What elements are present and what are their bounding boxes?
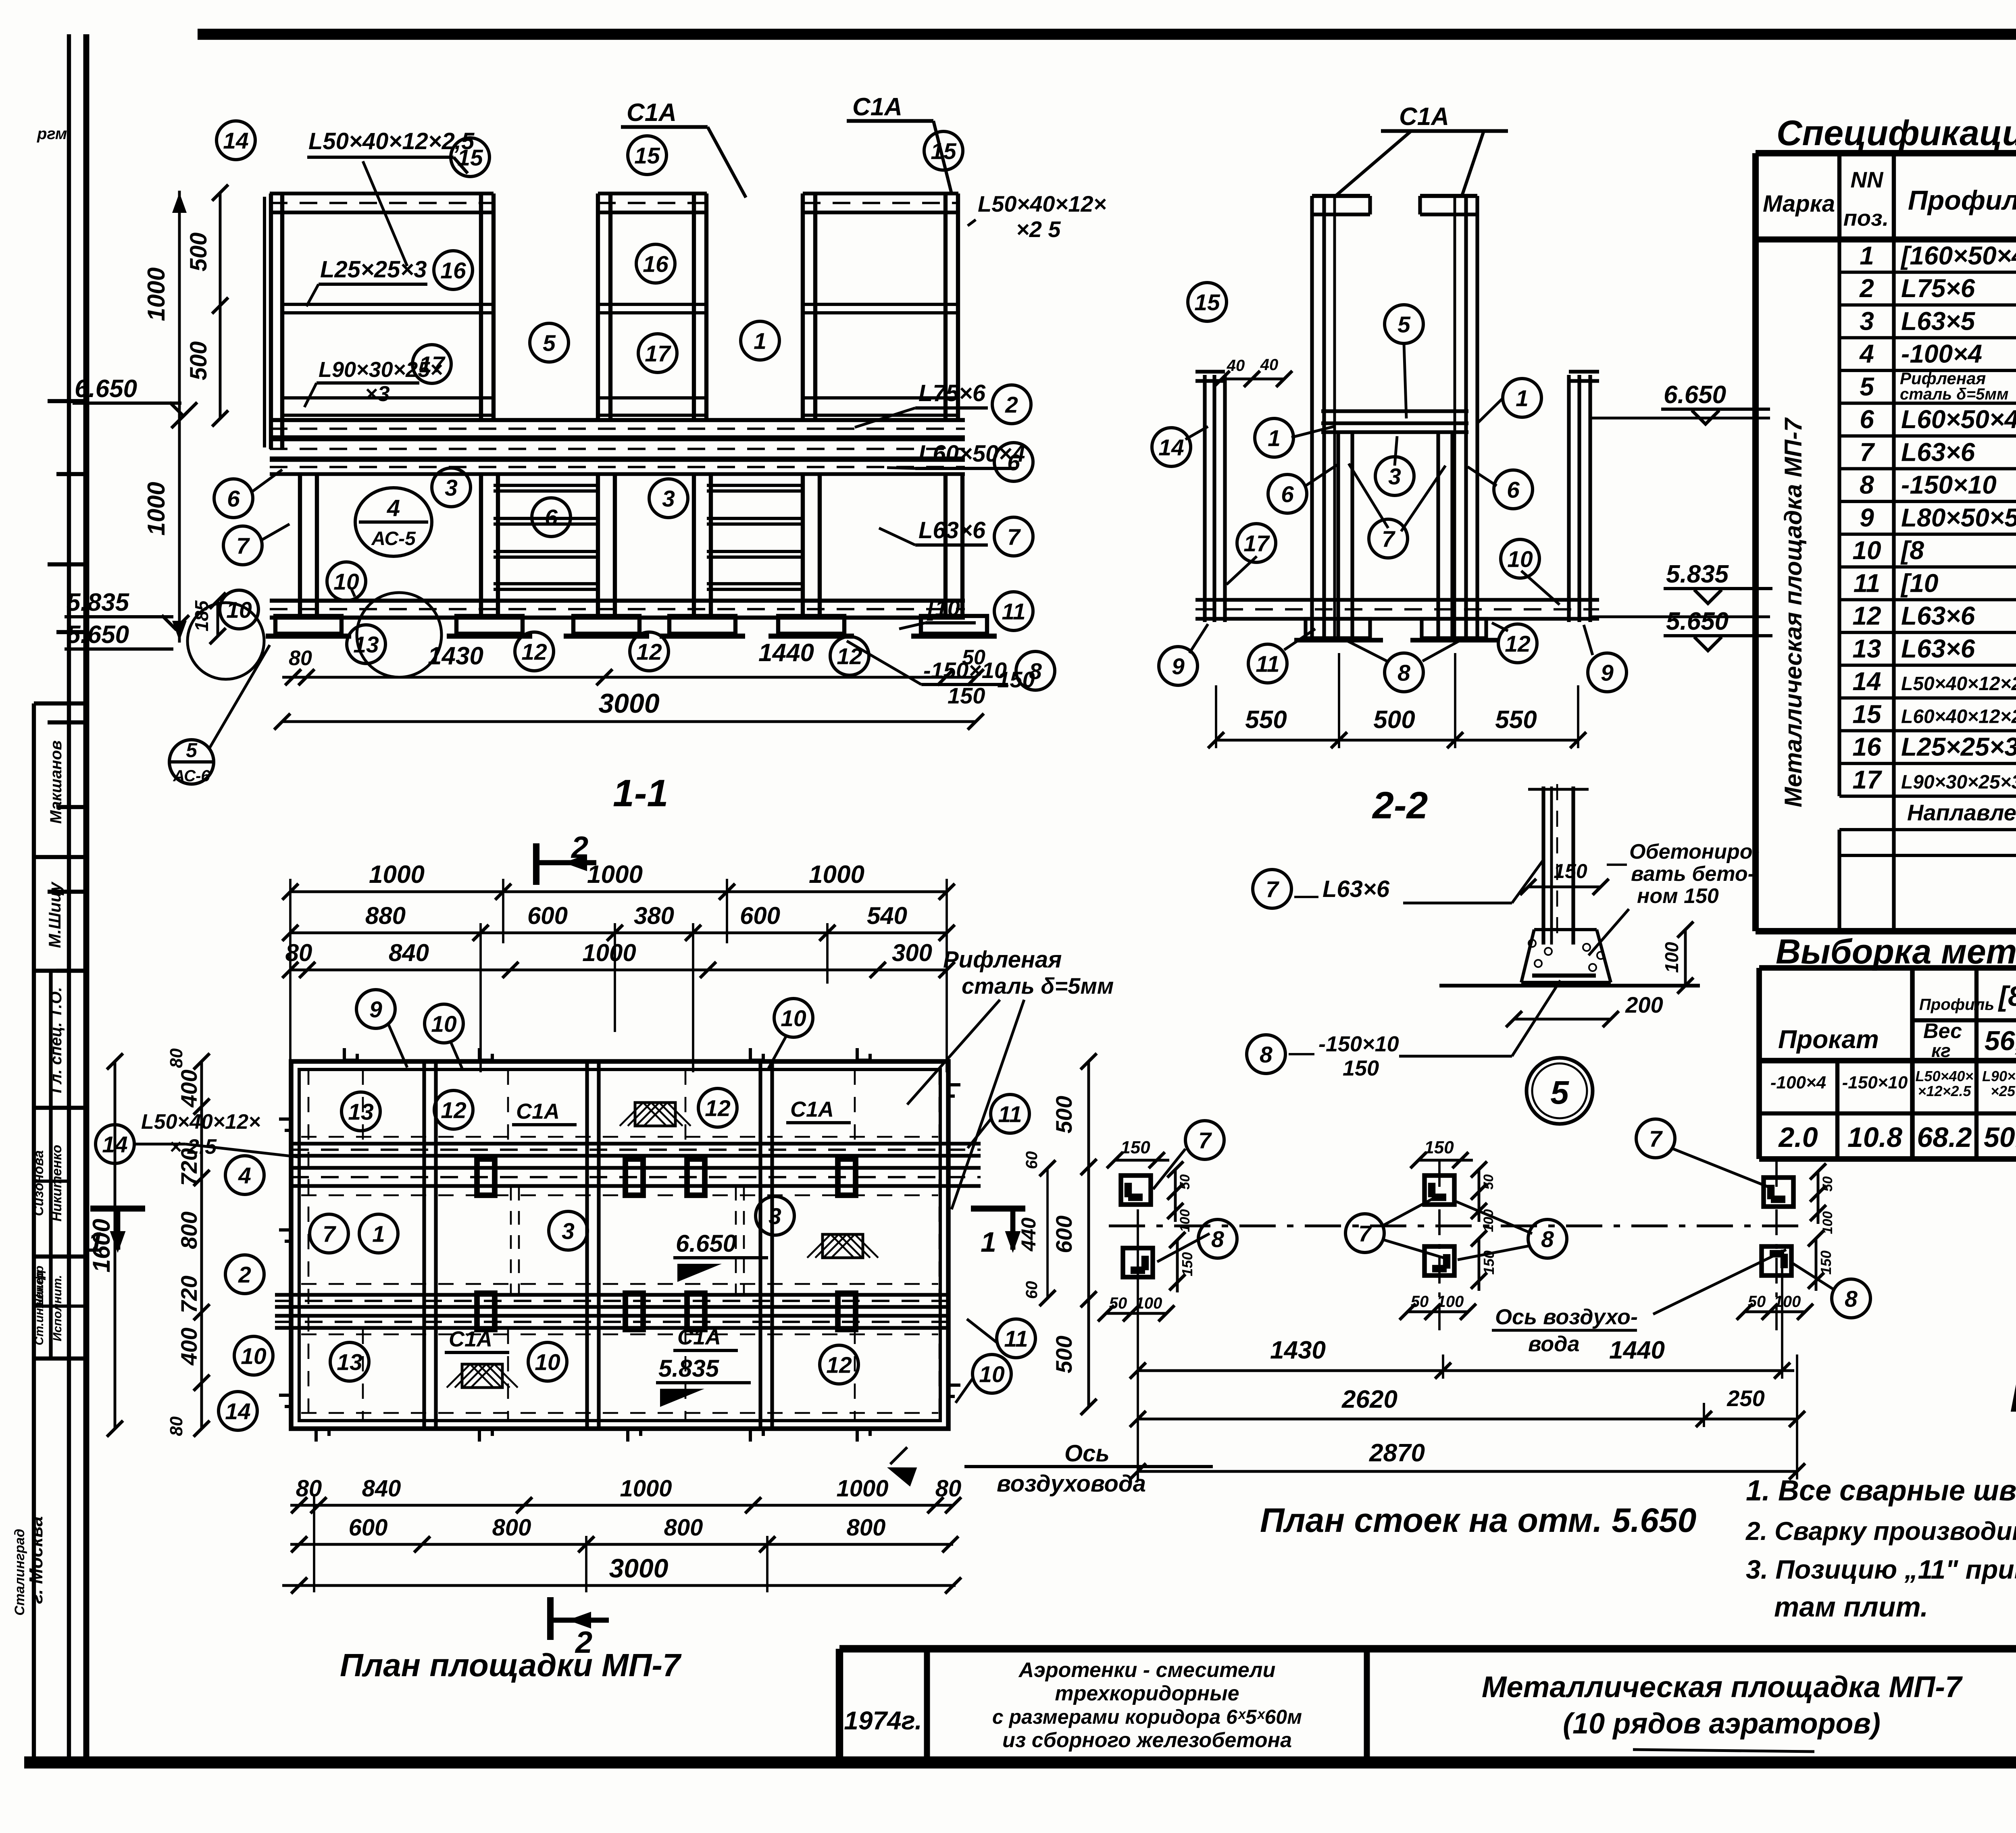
svg-text:50: 50 — [1820, 1176, 1835, 1192]
svg-text:Сталинград: Сталинград — [12, 1529, 27, 1615]
svg-text:50: 50 — [1481, 1174, 1496, 1190]
svg-text:С1А: С1А — [627, 99, 677, 127]
svg-text:600: 600 — [740, 902, 780, 929]
svg-text:L60×50×4: L60×50×4 — [918, 441, 1025, 467]
svg-text:150: 150 — [1179, 1252, 1195, 1276]
svg-text:Сизонова: Сизонова — [31, 1150, 46, 1216]
svg-text:кг: кг — [1931, 1040, 1951, 1061]
svg-text:7: 7 — [1382, 526, 1395, 552]
svg-text:[10: [10 — [1900, 568, 1939, 597]
svg-text:L63×6: L63×6 — [1901, 601, 1975, 630]
svg-text:2: 2 — [1859, 274, 1874, 303]
svg-text:6.650: 6.650 — [1664, 381, 1726, 409]
svg-text:1974г.: 1974г. — [844, 1706, 922, 1735]
svg-text:500: 500 — [1373, 706, 1415, 734]
svg-text:1000: 1000 — [143, 482, 170, 535]
svg-text:L63×6: L63×6 — [1901, 634, 1975, 663]
svg-text:Рифленая: Рифленая — [943, 947, 1062, 973]
svg-text:Профиль: Профиль — [1919, 996, 1994, 1013]
svg-text:150: 150 — [1424, 1138, 1454, 1157]
svg-text:L63×6: L63×6 — [1322, 876, 1390, 902]
svg-text:80: 80 — [167, 1048, 186, 1068]
svg-text:L60×50×4: L60×50×4 — [1901, 405, 2016, 434]
svg-text:Ось воздухо-: Ось воздухо- — [1495, 1305, 1638, 1329]
svg-text:L25×25×3: L25×25×3 — [1901, 732, 2016, 761]
svg-text:L50×40×12×: L50×40×12× — [978, 191, 1106, 216]
svg-text:1000: 1000 — [836, 1475, 888, 1502]
svg-text:2. Сварку производить электрод: 2. Сварку производить электродами Э-42 Г… — [1745, 1517, 2016, 1546]
svg-text:5.835: 5.835 — [67, 589, 130, 616]
svg-text:L50×40×12×: L50×40×12× — [141, 1110, 260, 1134]
svg-text:550: 550 — [1245, 706, 1287, 734]
svg-text:12: 12 — [1505, 631, 1531, 657]
svg-text:12: 12 — [705, 1096, 731, 1121]
svg-text:12: 12 — [1852, 601, 1881, 630]
svg-text:Примечания: Примечания — [2010, 1373, 2016, 1421]
svg-text:3: 3 — [662, 486, 675, 512]
svg-text:С1А: С1А — [516, 1099, 560, 1124]
svg-text:×3: ×3 — [365, 382, 390, 406]
svg-text:11: 11 — [1004, 1326, 1028, 1352]
svg-text:380: 380 — [634, 902, 674, 929]
svg-text:1000: 1000 — [582, 939, 636, 966]
svg-text:6.650: 6.650 — [676, 1230, 736, 1257]
svg-text:100: 100 — [1437, 1293, 1464, 1311]
svg-text:5.835: 5.835 — [658, 1355, 720, 1382]
svg-text:5: 5 — [1860, 372, 1874, 401]
svg-text:Вес: Вес — [1923, 1019, 1962, 1043]
svg-text:5: 5 — [1550, 1074, 1569, 1111]
svg-text:План стоек на отм. 5.650: План стоек на отм. 5.650 — [1260, 1501, 1696, 1539]
svg-text:7: 7 — [1266, 877, 1279, 903]
svg-text:2870: 2870 — [1369, 1439, 1425, 1467]
svg-text:17: 17 — [1852, 765, 1883, 794]
svg-text:-100×4: -100×4 — [1770, 1073, 1826, 1092]
svg-text:50: 50 — [1177, 1174, 1193, 1190]
svg-text:13: 13 — [353, 632, 379, 658]
svg-text:трехкоридорные: трехкоридорные — [1055, 1682, 1239, 1705]
svg-text:14: 14 — [1852, 667, 1881, 696]
svg-text:50.3: 50.3 — [1984, 1121, 2016, 1153]
svg-text:L60×40×12×2.5: L60×40×12×2.5 — [1901, 706, 2016, 727]
svg-text:План площадки МП-7: План площадки МП-7 — [340, 1647, 682, 1683]
svg-text:L50×40×: L50×40× — [1915, 1068, 1973, 1084]
svg-text:ргм: ргм — [37, 125, 67, 143]
svg-text:7: 7 — [323, 1221, 336, 1247]
svg-text:L50×40×12×2,5: L50×40×12×2,5 — [308, 128, 475, 154]
svg-text:13: 13 — [337, 1350, 362, 1375]
svg-text:вода: вода — [1528, 1332, 1580, 1356]
svg-text:300: 300 — [892, 939, 932, 966]
svg-text:10: 10 — [241, 1344, 267, 1369]
svg-text:Профиль: Профиль — [1908, 185, 2016, 216]
svg-text:500: 500 — [185, 341, 212, 381]
svg-text:3. Позицию „11" приваривать к: 3. Позицию „11" приваривать к закладным … — [1746, 1554, 2016, 1584]
svg-text:1: 1 — [981, 1226, 996, 1258]
svg-text:100: 100 — [1135, 1294, 1162, 1312]
svg-text:840: 840 — [389, 939, 429, 966]
svg-text:6: 6 — [1860, 405, 1874, 434]
svg-text:540: 540 — [867, 902, 907, 929]
svg-text:550: 550 — [1495, 706, 1537, 734]
svg-text:Рифленая: Рифленая — [1900, 369, 1986, 388]
svg-text:воздуховода: воздуховода — [997, 1471, 1146, 1497]
svg-text:1: 1 — [754, 329, 766, 354]
svg-text:150: 150 — [1818, 1250, 1834, 1275]
svg-text:Спецификация металла на 1 марк: Спецификация металла на 1 марку — [1776, 113, 2016, 153]
svg-text:-150×10: -150×10 — [1318, 1032, 1399, 1056]
svg-text:600: 600 — [1051, 1215, 1077, 1253]
svg-text:Ши.фр: Ши.фр — [33, 1266, 46, 1307]
svg-text:9: 9 — [1860, 503, 1874, 532]
svg-text:L63×6: L63×6 — [918, 517, 986, 543]
svg-text:5: 5 — [186, 739, 198, 761]
svg-text:7: 7 — [1649, 1126, 1663, 1152]
svg-text:11: 11 — [1256, 651, 1279, 677]
svg-text:150: 150 — [1343, 1056, 1379, 1080]
svg-text:8: 8 — [1029, 659, 1042, 685]
svg-text:1-1: 1-1 — [613, 772, 668, 815]
svg-text:56,0: 56,0 — [1985, 1026, 2016, 1056]
svg-text:С1А: С1А — [449, 1327, 492, 1351]
svg-text:80: 80 — [289, 647, 312, 670]
svg-text:68.2: 68.2 — [1917, 1121, 1972, 1153]
svg-text:-150×10: -150×10 — [1901, 470, 1997, 499]
svg-text:7: 7 — [236, 533, 250, 559]
svg-text:Обетониро-: Обетониро- — [1629, 840, 1760, 863]
svg-text:Гл. спец. Т.О.: Гл. спец. Т.О. — [47, 987, 65, 1093]
svg-text:× 2.5: × 2.5 — [169, 1135, 217, 1159]
svg-text:16: 16 — [1852, 732, 1881, 761]
svg-text:185: 185 — [191, 600, 212, 631]
svg-text:2620: 2620 — [1341, 1386, 1397, 1413]
svg-text:50: 50 — [1411, 1293, 1429, 1311]
svg-text:720: 720 — [176, 1275, 202, 1313]
svg-text:600: 600 — [349, 1515, 388, 1541]
svg-text:L63×5: L63×5 — [1901, 306, 1976, 335]
svg-text:1430: 1430 — [1270, 1336, 1326, 1364]
svg-text:840: 840 — [362, 1475, 401, 1502]
svg-text:×12×2.5: ×12×2.5 — [1918, 1083, 1971, 1099]
svg-text:1: 1 — [1516, 386, 1529, 412]
svg-text:5.650: 5.650 — [67, 621, 129, 649]
svg-text:2: 2 — [238, 1262, 251, 1288]
svg-text:Исполнит.: Исполнит. — [51, 1275, 64, 1342]
svg-text:600: 600 — [527, 902, 568, 929]
svg-text:500: 500 — [1051, 1096, 1077, 1133]
svg-text:500: 500 — [1051, 1336, 1077, 1373]
svg-text:3000: 3000 — [598, 688, 659, 719]
svg-text:5.650: 5.650 — [1666, 608, 1729, 635]
svg-text:10: 10 — [1507, 547, 1533, 572]
svg-text:100: 100 — [1774, 1293, 1801, 1311]
svg-text:-100×4: -100×4 — [1901, 339, 1982, 368]
svg-text:8: 8 — [1845, 1286, 1858, 1312]
svg-text:1. Все сварные швы h= 4мм.: 1. Все сварные швы h= 4мм. — [1746, 1475, 2016, 1507]
svg-text:10.8: 10.8 — [1847, 1121, 1902, 1153]
svg-text:8: 8 — [1211, 1227, 1224, 1253]
svg-text:9: 9 — [369, 997, 382, 1023]
svg-text:800: 800 — [176, 1211, 202, 1249]
svg-text:80: 80 — [935, 1475, 962, 1502]
svg-text:7: 7 — [1860, 437, 1875, 466]
svg-text:13: 13 — [1852, 634, 1881, 663]
svg-text:L50×40×12×2.5: L50×40×12×2.5 — [1901, 673, 2016, 695]
svg-text:NN: NN — [1851, 167, 1884, 192]
svg-text:12: 12 — [636, 639, 662, 665]
svg-text:сталь δ=5мм: сталь δ=5мм — [962, 973, 1114, 999]
svg-text:14: 14 — [223, 128, 248, 154]
svg-text:[160×50×4: [160×50×4 — [1900, 241, 2016, 270]
svg-text:там плит.: там плит. — [1774, 1591, 1928, 1623]
svg-text:12: 12 — [826, 1352, 852, 1378]
svg-text:[10: [10 — [927, 595, 960, 621]
svg-text:15: 15 — [1194, 290, 1220, 316]
svg-text:16: 16 — [643, 252, 669, 277]
svg-text:2-2: 2-2 — [1372, 784, 1428, 827]
svg-text:ном 150: ном 150 — [1637, 884, 1719, 908]
svg-text:8: 8 — [1260, 1042, 1272, 1068]
svg-text:С1А: С1А — [790, 1097, 834, 1121]
svg-text:11: 11 — [998, 1102, 1022, 1128]
svg-text:L90×50×: L90×50× — [1982, 1068, 2016, 1084]
svg-text:6: 6 — [545, 505, 558, 531]
svg-text:11: 11 — [1002, 599, 1025, 625]
svg-text:50: 50 — [1109, 1294, 1127, 1312]
svg-text:10: 10 — [979, 1362, 1005, 1388]
svg-text:[8: [8 — [1998, 980, 2016, 1012]
svg-text:7: 7 — [1007, 524, 1021, 550]
svg-text:17: 17 — [1243, 531, 1270, 557]
svg-text:1: 1 — [372, 1221, 385, 1247]
svg-text:10: 10 — [431, 1011, 457, 1037]
svg-text:8: 8 — [1397, 660, 1410, 686]
svg-text:L25×25×3: L25×25×3 — [320, 256, 427, 283]
svg-text:10: 10 — [1852, 536, 1881, 565]
svg-text:1: 1 — [88, 1226, 104, 1258]
svg-text:10: 10 — [535, 1350, 560, 1375]
svg-text:5.835: 5.835 — [1666, 560, 1729, 588]
svg-text:Металлическая площадка МП-7: Металлическая площадка МП-7 — [1482, 1670, 1963, 1704]
svg-text:14: 14 — [102, 1132, 127, 1158]
svg-text:4: 4 — [1859, 339, 1874, 368]
svg-text:15: 15 — [634, 143, 660, 169]
svg-text:150: 150 — [1120, 1138, 1150, 1157]
svg-text:L63×6: L63×6 — [1901, 437, 1975, 466]
svg-text:С1А: С1А — [1399, 103, 1449, 131]
svg-text:L75×6: L75×6 — [918, 380, 986, 406]
svg-text:2: 2 — [571, 830, 588, 865]
svg-text:500: 500 — [185, 233, 212, 272]
svg-text:Никитенко: Никитенко — [49, 1145, 65, 1222]
svg-text:40: 40 — [1260, 356, 1279, 374]
svg-text:50: 50 — [1748, 1293, 1766, 1311]
svg-text:2: 2 — [1005, 392, 1018, 418]
svg-text:3: 3 — [445, 475, 458, 501]
svg-text:4: 4 — [238, 1163, 251, 1189]
svg-text:200: 200 — [1625, 992, 1663, 1017]
svg-text:10: 10 — [226, 597, 252, 623]
svg-text:АС-5: АС-5 — [371, 528, 416, 549]
svg-text:-150×10: -150×10 — [1842, 1073, 1908, 1092]
svg-text:60: 60 — [1023, 1281, 1041, 1299]
svg-text:2.0: 2.0 — [1778, 1121, 1818, 1153]
svg-text:12: 12 — [441, 1098, 467, 1124]
svg-text:[8: [8 — [1900, 536, 1924, 565]
svg-text:10: 10 — [333, 569, 359, 595]
svg-text:3: 3 — [768, 1204, 781, 1230]
svg-text:×2 5: ×2 5 — [1016, 216, 1061, 242]
svg-text:9: 9 — [1601, 660, 1614, 686]
svg-text:14: 14 — [1158, 435, 1184, 461]
svg-text:вать бето-: вать бето- — [1631, 862, 1755, 886]
svg-text:5: 5 — [1397, 312, 1411, 338]
svg-text:1: 1 — [1268, 426, 1281, 451]
svg-text:г. Москва: г. Москва — [25, 1516, 46, 1604]
svg-text:440: 440 — [1017, 1217, 1040, 1252]
svg-text:×25×3: ×25×3 — [1991, 1083, 2016, 1099]
svg-text:6.650: 6.650 — [75, 375, 137, 403]
svg-text:АС-6: АС-6 — [173, 767, 210, 785]
svg-text:150: 150 — [948, 683, 985, 708]
svg-text:800: 800 — [847, 1515, 886, 1541]
svg-text:3: 3 — [1388, 464, 1401, 490]
svg-text:с размерами коридора 6ˣ5ˣ60м: с размерами коридора 6ˣ5ˣ60м — [992, 1706, 1302, 1728]
svg-text:Макшанов: Макшанов — [47, 741, 65, 824]
svg-text:800: 800 — [664, 1515, 703, 1541]
svg-text:Металлическая площадка МП-7: Металлическая площадка МП-7 — [1780, 417, 1807, 807]
svg-text:16: 16 — [440, 258, 466, 284]
svg-text:17: 17 — [645, 341, 671, 367]
svg-text:С1А: С1А — [852, 93, 902, 121]
svg-text:6: 6 — [1507, 477, 1520, 503]
svg-text:80: 80 — [296, 1475, 322, 1502]
svg-text:Ось: Ось — [1064, 1440, 1110, 1467]
svg-text:4: 4 — [387, 495, 400, 521]
svg-text:1430: 1430 — [428, 642, 483, 670]
svg-text:40: 40 — [1227, 357, 1245, 375]
svg-text:7: 7 — [1358, 1221, 1372, 1247]
svg-text:5: 5 — [543, 331, 556, 356]
svg-text:60: 60 — [1023, 1151, 1041, 1169]
svg-text:L90×30×25×3: L90×30×25×3 — [1901, 772, 2016, 793]
svg-text:1: 1 — [1860, 241, 1874, 270]
svg-text:1000: 1000 — [809, 861, 864, 888]
svg-text:сталь δ=5мм: сталь δ=5мм — [1900, 385, 2009, 403]
svg-text:L80×50×5: L80×50×5 — [1901, 503, 2016, 532]
svg-text:L75×6: L75×6 — [1901, 274, 1975, 303]
svg-text:Наплавленный металл 0.5%: Наплавленный металл 0.5% — [1907, 800, 2016, 825]
svg-text:150: 150 — [1554, 860, 1587, 882]
svg-text:1440: 1440 — [1609, 1336, 1665, 1364]
svg-text:поз.: поз. — [1843, 205, 1889, 231]
svg-text:9: 9 — [1172, 654, 1185, 680]
svg-text:13: 13 — [348, 1099, 374, 1125]
svg-text:(10 рядов аэраторов): (10 рядов аэраторов) — [1563, 1708, 1881, 1740]
svg-text:1440: 1440 — [758, 639, 814, 667]
svg-text:7: 7 — [1198, 1128, 1212, 1154]
svg-text:L90×30×25×: L90×30×25× — [319, 358, 443, 382]
svg-text:3000: 3000 — [609, 1553, 669, 1583]
svg-text:8: 8 — [1541, 1227, 1554, 1253]
svg-text:15: 15 — [1852, 699, 1882, 728]
svg-text:6: 6 — [1281, 482, 1294, 508]
svg-text:800: 800 — [492, 1515, 531, 1541]
svg-text:400: 400 — [176, 1327, 202, 1365]
svg-text:из сборного железобетона: из сборного железобетона — [1002, 1729, 1292, 1752]
svg-text:14: 14 — [225, 1399, 250, 1425]
svg-text:С1А: С1А — [677, 1325, 721, 1349]
svg-text:11: 11 — [1854, 568, 1880, 597]
svg-text:1000: 1000 — [620, 1475, 672, 1502]
svg-text:10: 10 — [781, 1006, 806, 1032]
svg-text:6: 6 — [227, 486, 240, 512]
svg-text:250: 250 — [1727, 1386, 1764, 1411]
svg-text:1000: 1000 — [143, 267, 170, 321]
svg-text:Марка: Марка — [1763, 191, 1835, 217]
svg-text:3: 3 — [562, 1219, 575, 1244]
svg-text:-150×10: -150×10 — [923, 657, 1007, 683]
svg-text:80: 80 — [167, 1416, 186, 1436]
svg-text:400: 400 — [176, 1069, 202, 1107]
svg-text:Прокат: Прокат — [1778, 1025, 1879, 1054]
svg-text:8: 8 — [1860, 470, 1874, 499]
svg-text:3: 3 — [1860, 306, 1874, 335]
svg-text:Аэротенки - смесители: Аэротенки - смесители — [1018, 1658, 1276, 1682]
svg-text:1000: 1000 — [369, 861, 425, 888]
svg-text:100: 100 — [1177, 1209, 1193, 1232]
svg-text:100: 100 — [1661, 942, 1682, 973]
svg-text:880: 880 — [365, 902, 406, 929]
svg-text:12: 12 — [521, 639, 547, 665]
